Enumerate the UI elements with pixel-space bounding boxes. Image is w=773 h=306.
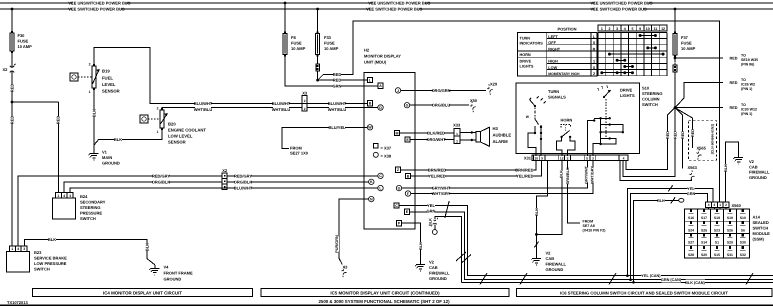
table contact dots HIGH row [616,59,627,62]
svg-text:2: 2 [456,140,458,144]
svg-text:R: R [593,47,596,51]
svg-text:F37: F37 [681,35,689,40]
svg-text:BLK/RED: BLK/RED [427,131,445,136]
connector bar X31 [532,155,628,160]
svg-text:RED: RED [730,81,738,85]
svg-text:S14: S14 [701,241,707,245]
svg-text:S20: S20 [701,253,707,257]
wire BLK from S10 pin 12 to ground junction [536,161,562,235]
MDU pin C2 (X37) CAN high [394,203,415,208]
MDU pin K (X38) [369,179,374,184]
svg-text:A14: A14 [753,215,761,220]
svg-text:UNIT (MDU): UNIT (MDU) [364,60,387,65]
wire label RED vertical (branch 3) [680,131,685,138]
svg-text:VEE UNSWITCHED POWER BUS: VEE UNSWITCHED POWER BUS [368,1,430,6]
svg-text:BLK: BLK [48,237,56,242]
svg-text:ORG/BLK: ORG/BLK [152,179,171,184]
wire label BLU/WHT (1) [195,101,211,106]
note TO IC30 W12 (PIN 1) [741,103,757,116]
svg-text:BLK: BLK [419,242,423,250]
wire BLK CAN shield to terminal [462,281,773,283]
svg-text:X2: X2 [3,67,9,72]
svg-text:12: 12 [661,27,665,31]
table contact dots LOW row [623,65,634,68]
svg-text:GRY/WHT: GRY/WHT [432,186,451,191]
svg-text:PRESSURE: PRESSURE [80,211,102,216]
svg-text:VEE SWITCHED POWER BUS: VEE SWITCHED POWER BUS [366,7,423,12]
wire BLK from B23 pin 3 to front frame ground V4 [24,239,155,264]
note TO IC26 W2 (PIN 1) [741,78,755,91]
junction node S10 ground [535,233,538,236]
svg-text:G: G [398,187,401,191]
svg-text:10 AMP: 10 AMP [291,46,306,51]
drive lights contact ladder [594,117,624,145]
svg-text:V4: V4 [164,265,170,270]
label F37 FUSE 10 AMP [681,35,696,51]
svg-text:2: 2 [608,27,610,31]
svg-text:RED: RED [10,84,15,93]
wire BLK CAN shield stub to terminal (SSM) [634,200,679,282]
svg-text:B23: B23 [34,250,42,255]
svg-text:(PIN 86): (PIN 86) [741,63,755,67]
MDU pin A (X37) [366,83,383,88]
wire label RED [10,84,15,92]
MDU pin N (X38) [369,196,374,201]
wire label BLU/WHT (right of X2) [235,186,251,191]
svg-text:TO: TO [741,54,746,58]
svg-text:4: 4 [17,247,19,251]
junction node RED F33 [316,79,319,82]
svg-text:1: 1 [719,203,721,207]
svg-text:S18: S18 [714,216,720,220]
MDU pin Z (X37) turn signal feed [395,167,415,172]
svg-text:TURN: TURN [520,37,531,41]
slash group on CAN bus at 749 [746,273,753,285]
svg-text:SE27 1X0: SE27 1X0 [290,151,309,156]
svg-text:WHT/BLU: WHT/BLU [272,107,291,112]
wire RED down to B23 pin 1 [11,102,13,246]
svg-text:VEE UNSWITCHED POWER BUS: VEE UNSWITCHED POWER BUS [590,1,652,6]
svg-text:LIGHTS: LIGHTS [520,65,534,69]
svg-text:OFF: OFF [548,41,556,45]
slash group on CAN bus at 523 [520,273,527,285]
wire YEL CAN high from MDU pin C to CAN bus [415,205,773,275]
svg-text:ORG/WHT: ORG/WHT [426,137,446,142]
MDU pin G2 (X38) drive lights high [396,185,415,190]
ground V1 main [89,150,99,160]
wire RED fan branch 2 to S10 loop [623,108,675,177]
wire label RED (to pin L) [333,78,341,83]
wire label BLK vertical (pin 12) [559,170,564,177]
wire label GRN [427,209,435,214]
wire shield connector to ring terminal [434,225,436,230]
MDU pin E (X37) alarm low [405,137,415,142]
label F8 FUSE 10 AMP [291,35,306,51]
svg-text:4: 4 [623,156,625,160]
connector X29 [484,84,495,95]
svg-text:IC4 MONITOR DISPLAY UNIT CIRCU: IC4 MONITOR DISPLAY UNIT CIRCUIT [103,291,182,296]
ground V2 cab firewall (right) [733,154,743,164]
svg-text:B20: B20 [168,122,176,127]
wire unswitched bus down to fuse F8 [284,3,286,32]
wire label ORG/WHT [428,137,444,142]
fuse F33 [316,32,320,57]
wire label BLK (shield stub) [657,198,664,203]
twisted pair slash YEL GRN shield [445,201,449,218]
junction node CAN YEL branch [626,274,629,277]
svg-text:S1: S1 [715,241,719,245]
svg-text:S28: S28 [688,253,694,257]
wire label WHT/BLU (3) [329,107,345,112]
svg-text:COLUMN: COLUMN [642,97,660,102]
svg-text:(SSM): (SSM) [753,237,765,242]
svg-text:MOMENTARY HIGH: MOMENTARY HIGH [548,72,580,76]
svg-text:X563: X563 [688,165,698,170]
svg-text:S10: S10 [740,216,746,220]
svg-text:FUSE: FUSE [681,41,692,46]
wire RED to IC30 note [675,107,723,109]
wire BLK/RED from MDU pin M to X33 pin 1 [415,132,454,134]
svg-text:S24: S24 [688,228,694,232]
svg-text:BLK: BLK [429,218,433,226]
wire label GRY/WHT vertical at S10 [584,167,589,182]
svg-text:FRONT FRAME: FRONT FRAME [164,271,193,276]
note TO SE19 W35 (PIN 86) [741,54,758,67]
svg-text:W: W [368,126,372,130]
svg-text:WHT/GRY: WHT/GRY [432,191,451,196]
svg-text:X560: X560 [732,203,742,208]
wire label GRN (CAN) [661,277,681,282]
svg-text:FIREWALL: FIREWALL [429,271,450,276]
svg-text:4: 4 [63,194,65,198]
wire BLK from junction to B20 pin 1 (Y-join) [94,130,162,145]
svg-text:5: 5 [631,27,633,31]
wire label BLK vertical (X560) [723,164,728,171]
svg-text:S10: S10 [642,86,650,91]
svg-text:V1: V1 [102,150,108,155]
wire label RED (left drop) [10,116,15,124]
svg-text:LOW LEVEL: LOW LEVEL [168,134,193,139]
svg-text:RED/GRY: RED/GRY [234,173,252,178]
svg-text:POSITION: POSITION [557,27,576,32]
svg-text:A: A [379,84,382,88]
fuse F37 [673,32,677,58]
svg-text:RED: RED [56,116,61,125]
svg-text:K: K [370,180,373,184]
wire label GRN/BLK vertical [565,168,570,183]
svg-text:1: 1 [11,247,13,251]
junction node RED F37 [674,57,677,60]
MDU pin L2 (X38) [366,185,383,190]
svg-text:BLK: BLK [657,199,665,203]
svg-text:SWITCH: SWITCH [642,102,658,107]
wire RED to IC26 note [675,83,723,108]
svg-text:2500 & 3000 SYSTEM FUNCTIONAL: 2500 & 3000 SYSTEM FUNCTIONAL SCHEMATIC … [318,299,450,304]
label B19 FUEL LEVEL SENSOR [102,69,120,94]
svg-text:1: 1 [601,27,603,31]
MDU pin C (X38) [366,173,383,178]
wire label RED vertical (branch 1) [665,131,670,138]
svg-text:S15: S15 [714,253,720,257]
wire label WHT/BLU (1) [195,107,211,112]
svg-text:X565: X565 [697,146,707,151]
label V2 CAB FIREWALL GROUND (S10) [546,251,567,273]
svg-text:BLK: BLK [559,170,563,178]
svg-text:0: 0 [593,66,595,70]
svg-text:RED: RED [681,131,685,139]
svg-text:BLK: BLK [92,109,97,117]
wire label BLK (B23 ground) [48,237,56,242]
svg-text:S27: S27 [688,241,694,245]
svg-text:GROUND: GROUND [749,175,767,180]
wire label RED (B24 drop) [56,116,61,124]
wire GRN/BLK from S10 pin 2 to SE7 note [568,161,580,223]
wire RED from F33 junction up and across to SSM connector X560 pin 1 [318,21,720,202]
svg-text:BRN/RED: BRN/RED [515,167,533,172]
svg-text:AUDIBLE: AUDIBLE [493,133,512,138]
svg-text:DRIVE: DRIVE [520,60,532,64]
connector X33 [454,129,460,144]
wire label ORG/BLK (left) [153,179,169,184]
wire PUR/GRN from MDU pin N to X3 (bottom) [339,199,368,264]
svg-text:BLK: BLK [114,137,122,142]
MDU pin B (X37) [367,101,372,106]
junction node alarm plus [471,131,473,133]
net label VEE SWITCHED POWER BUS (middle) [370,6,419,11]
wire ORG/BLK from B24 pin 4 up and right to MDU pin K [64,182,369,193]
connector on CAN shield [431,218,437,227]
svg-text:RED: RED [674,131,678,139]
steering column switch S10 box [516,83,640,154]
svg-text:SENSOR: SENSOR [168,140,186,145]
net label VEE UNSWITCHED POWER BUS (right) [595,0,648,5]
wire label RED (SE19) [729,55,736,60]
label V1 MAIN GROUND [102,150,120,166]
svg-text:D: D [379,106,382,110]
wire label BLK (CAN) [685,280,705,285]
svg-text:10 AMP: 10 AMP [681,46,696,51]
wire X33 pin 2 to alarm [460,139,476,141]
label B24 SECONDARY STEERING PRESSURE SWITCH [80,194,106,221]
svg-text:BLK: BLK [724,164,728,172]
svg-text:3: 3 [616,27,618,31]
svg-text:GRN (CAN): GRN (CAN) [661,278,682,282]
svg-text:X2: X2 [222,168,228,173]
svg-text:B: B [407,175,410,179]
svg-text:3: 3 [714,203,716,207]
svg-text:LOW PRESSURE: LOW PRESSURE [34,261,67,266]
junction on switched bus at F30 feed [11,8,14,11]
junction node alarm minus [471,139,473,141]
svg-text:X3: X3 [302,90,308,95]
wire label BLU/WHT (2) [273,101,289,106]
connector X2 (left) [10,63,16,75]
monitor display unit H2 box [364,73,415,229]
drive lights switch inside S10 [598,86,611,139]
svg-text:ORG/BLK: ORG/BLK [234,179,253,184]
svg-text:IC26 W2: IC26 W2 [741,83,755,87]
wire label RED vertical (branch 2) [673,131,678,138]
slash group on CAN bus at 612 [609,273,616,285]
svg-text:S32: S32 [740,253,746,257]
svg-text:X3: X3 [343,265,349,270]
svg-text:4: 4 [624,27,626,31]
svg-text:H3: H3 [493,126,499,131]
svg-text:IC6 STEERING COLUMN SWITCH CIR: IC6 STEERING COLUMN SWITCH CIRCUIT AND S… [560,291,728,296]
wire label BLK vertical (shield) [428,218,433,225]
svg-text:FUSE: FUSE [18,39,29,44]
svg-text:RED: RED [730,56,738,60]
MDU pin W (X38) [367,125,372,130]
svg-text:MODULE: MODULE [753,231,771,236]
legend square = X37 [374,144,392,151]
svg-text:V2: V2 [749,159,755,164]
pressure switch B24 connector header pins 1 4 3 [55,192,73,198]
svg-text:3: 3 [23,247,25,251]
svg-text:J: J [397,89,399,93]
svg-text:10 AMP: 10 AMP [18,44,33,49]
wire label RED (IC26) [729,80,736,85]
label V4 FRONT FRAME GROUND [164,265,193,282]
pressure switch B23 connector header pins 1 4 3 [9,246,27,252]
wire BLK CAN shield riser [435,217,462,283]
wire label GRN [333,83,341,88]
svg-text:FUEL: FUEL [102,76,113,81]
svg-text:RED: RED [666,131,670,139]
junction on switched bus at F37 feed [674,8,677,11]
svg-text:1: 1 [456,132,458,136]
wire label BLU/YEL [329,125,345,130]
MDU pin D (X38) [366,105,383,110]
svg-text:VEE SWITCHED POWER BUS: VEE SWITCHED POWER BUS [590,7,647,12]
svg-text:S17: S17 [701,216,707,220]
svg-text:FIREWALL: FIREWALL [749,170,770,175]
legend circle = X38 [373,152,392,158]
svg-text:TX1072013: TX1072013 [7,300,28,305]
junction on unswitched bus at F8 feed [284,2,287,5]
svg-text:RED/GRY: RED/GRY [152,173,170,178]
wire label RED (IC30) [729,105,736,110]
svg-text:CAB: CAB [429,265,438,270]
svg-text:5: 5 [586,156,588,160]
svg-text:VEE SWITCHED POWER BUS: VEE SWITCHED POWER BUS [68,7,125,12]
svg-text:(PIN 1): (PIN 1) [741,112,753,116]
MDU pin E2 (X37) CAN low [404,209,415,214]
svg-text:C: C [395,204,398,208]
wire RED fan branch 4 to connector X565 [675,108,692,148]
slash group on CAN bus at 483 [480,273,487,285]
wire RED from F33 junction to MDU pin L [318,79,368,81]
svg-text:SECONDARY: SECONDARY [80,200,106,205]
svg-text:STEERING: STEERING [642,91,662,96]
inline connector below F33 [316,62,320,74]
wire label BRN/RED (near MDU) [429,167,445,172]
svg-text:2: 2 [304,107,306,111]
wire YEL CAN to X560 pin 3 [627,188,713,275]
wire BLU/YEL from SE27 to MDU pin W [282,127,368,148]
wire label YEL/RED (near MDU) [429,174,445,179]
svg-text:H2: H2 [364,48,370,53]
wire GRN from fuse F8 to MDU pin A [285,57,366,86]
svg-text:S6: S6 [741,228,745,232]
svg-text:WHT/BLU: WHT/BLU [194,107,213,112]
wire ORG/GRN from MDU pin J to X29 [415,89,486,91]
svg-text:SWITCH: SWITCH [34,267,50,272]
svg-text:S29: S29 [727,241,733,245]
svg-text:9: 9 [639,27,641,31]
wire label ORG/BLU [433,103,449,108]
wire YEL/RED from MDU pin B to S10 pin 9 [415,161,542,177]
wire GRN CAN to X560 pin 4 [631,194,708,280]
connector X563 [687,170,697,181]
svg-text:RIGHT: RIGHT [548,47,560,51]
wire VEE switched power bus [0,8,773,10]
wires X560 pins to SSM [709,207,726,209]
table contact dots MOMENTARY HIGH row [600,71,634,74]
inline slash on S10 ground wire [534,242,538,248]
svg-text:10: 10 [534,156,538,160]
wire label BLK/RED [428,130,444,135]
ring terminal CAN shield (SSM) [679,198,684,202]
net label VEE UNSWITCHED POWER BUS (left) [73,0,126,5]
connector X2 (middle) [222,168,228,189]
svg-text:BLU/WHT: BLU/WHT [328,101,347,106]
svg-text:M: M [396,131,399,135]
svg-text:YEL (CAN): YEL (CAN) [641,274,661,278]
svg-text:X33: X33 [453,123,461,128]
svg-text:2: 2 [304,99,306,103]
svg-text:SE19 W35: SE19 W35 [741,58,758,62]
switch position table label box [518,32,598,75]
switch position table grid [598,32,667,75]
MDU pin J (X38) audible output [395,88,415,93]
svg-text:PUR/GRN: PUR/GRN [335,235,339,253]
svg-text:0: 0 [593,41,595,45]
connector X3 cells [302,90,308,111]
wire BLK from S10 pin 8 to ground junction [536,161,547,235]
fuse F30 [10,31,14,53]
svg-text:ENGINE COOLANT: ENGINE COOLANT [168,128,206,133]
svg-text:(CLN 60N666-61N2): (CLN 60N666-61N2) [711,124,715,154]
connector X3 (bottom) [339,267,349,278]
wire BLK from B19 pin 1 down to ground V1 [93,90,95,150]
wire label WHT/GRY vertical at S10 [590,167,595,182]
wire label YEL (X560) [687,186,694,191]
svg-text:4: 4 [708,203,710,207]
wire loop from S10 bar to X563 [620,161,691,181]
svg-text:ORG/GRN: ORG/GRN [431,88,450,93]
inline connector below F37 [673,63,677,75]
MDU pin G (X38) [404,103,415,108]
svg-text:GROUND: GROUND [429,276,447,281]
note FROM SE27 1X0 [290,146,309,156]
wire X33 pin 1 to alarm [460,132,476,134]
svg-text:GROUND: GROUND [546,267,564,272]
wire label RED (upper branch) [333,72,341,77]
svg-text:BRN/RED: BRN/RED [428,167,446,172]
title box IC6 STEERING COLUMN SWITCH CIRCUIT AND SEALED SWITCH MODULE CIRCUIT [516,289,772,297]
wire RED down to B24 pin 1 [57,102,59,192]
wire GRY/WHT from MDU pin G to S10 pin 5 [415,161,587,189]
svg-text:F8: F8 [291,35,296,40]
svg-text:SEALED: SEALED [753,220,769,225]
net label VEE SWITCHED POWER BUS (right) [594,6,643,11]
wire BLU/WHT from B24 pin 3 through X2 to MDU pin L2 [70,188,366,192]
svg-text:1: 1 [89,90,91,94]
svg-text:YEL: YEL [687,187,695,191]
svg-text:11: 11 [654,27,658,31]
wire switched bus down to fuse F30 [11,9,13,31]
